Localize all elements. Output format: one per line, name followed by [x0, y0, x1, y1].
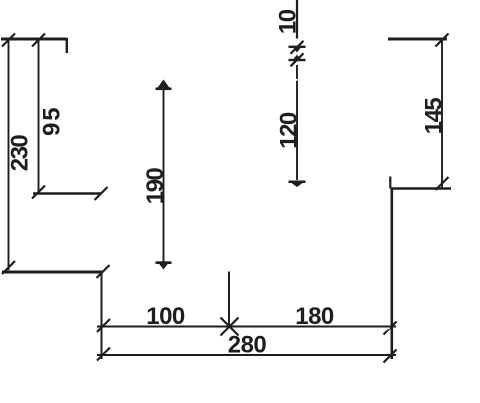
dimension line R (right): [441, 40, 443, 188]
arrow C small bottom (up): [289, 59, 306, 61]
white speck top-right corner: [389, 36, 391, 38]
svg-text:180: 180: [295, 303, 334, 330]
svg-text:280: 280: [228, 331, 267, 358]
left inner wall stub: [66, 39, 68, 53]
slash tick dim2 left: [97, 348, 110, 361]
svg-text:145: 145: [421, 98, 448, 135]
dimension line C (mid column): [296, 65, 298, 180]
slash tick dim1 left: [97, 319, 110, 332]
top-right part edge: [388, 38, 447, 41]
slash tick dim1 right: [384, 322, 397, 335]
arrow M top: [156, 88, 172, 91]
dimension line A (left outer): [8, 40, 10, 270]
svg-text:190: 190: [142, 168, 169, 205]
slash tick left bottom corner: [97, 265, 110, 278]
bottom dimension line 1: [97, 326, 396, 328]
slash tick dim B bottom: [32, 186, 45, 199]
white speck top-left corner: [67, 36, 69, 38]
slash tick dim R top: [436, 34, 449, 47]
arrow M bottom: [156, 261, 172, 264]
slash tick dim2 right: [384, 350, 397, 363]
slash tick dim R bottom: [436, 177, 449, 190]
slash tick small dim upper: [291, 41, 304, 54]
svg-text:95: 95: [39, 105, 66, 136]
arrow C bottom: [289, 181, 306, 184]
arrow C small top (down): [289, 46, 306, 48]
slash tick dim A bottom: [2, 261, 15, 274]
dimension line B (left inner): [38, 40, 40, 193]
leader line top middle: [296, 0, 298, 39]
slash tick small dim lower: [291, 53, 304, 66]
right wall stub offset: [389, 177, 391, 189]
right inner wall + extension: [390, 188, 393, 360]
extension line centre bottom: [228, 272, 230, 328]
svg-text:10: 10: [275, 9, 302, 34]
left step line: [33, 192, 101, 194]
left bottom edge: [2, 271, 103, 274]
extension line left bottom: [101, 272, 103, 359]
right step line: [391, 187, 451, 189]
svg-text:120: 120: [276, 112, 303, 149]
slash tick dim A top: [2, 34, 15, 47]
svg-text:100: 100: [146, 303, 185, 330]
white speck mid column: [296, 79, 298, 81]
svg-text:230: 230: [7, 135, 34, 172]
crossing ticks at chain point: [221, 318, 239, 336]
top-left part edge: [1, 38, 68, 41]
bottom dimension line 2: [97, 354, 396, 356]
slash tick left step end: [95, 187, 108, 200]
dimension line M (middle): [163, 88, 165, 262]
white speck bottom-right junction: [388, 327, 390, 329]
slash tick dim B top: [32, 34, 45, 47]
